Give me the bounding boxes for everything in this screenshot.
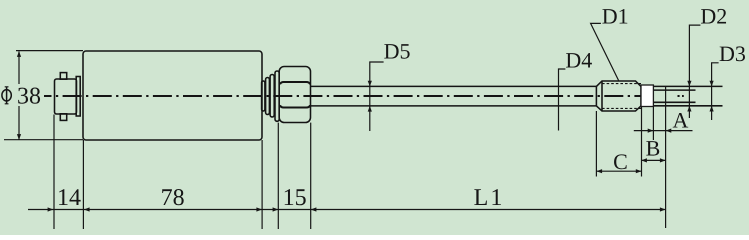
svg-text:15: 15 (283, 185, 307, 211)
svg-text:B: B (646, 136, 661, 161)
svg-text:78: 78 (161, 185, 185, 211)
svg-text:D5: D5 (384, 39, 411, 64)
svg-text:A: A (673, 108, 689, 133)
svg-text:L1: L1 (474, 185, 505, 211)
svg-text:14: 14 (57, 185, 81, 211)
svg-text:C: C (613, 149, 628, 174)
svg-text:D4: D4 (565, 48, 592, 73)
svg-text:D3: D3 (719, 41, 746, 66)
svg-text:D2: D2 (700, 3, 727, 28)
svg-text:D1: D1 (602, 3, 629, 28)
svg-text:38: 38 (17, 84, 41, 110)
